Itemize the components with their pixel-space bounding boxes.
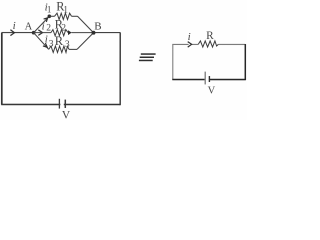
wire middle branch to node B bbox=[71, 32, 93, 34]
node B bbox=[92, 31, 96, 35]
resistor R3 zigzag bbox=[49, 46, 69, 52]
wire left-circuit outer loop bbox=[1, 33, 120, 106]
wire bottom right segment right-circuit bbox=[209, 79, 245, 81]
svg-text:i: i bbox=[188, 31, 191, 43]
svg-text:A: A bbox=[25, 21, 33, 32]
resistor R2 zigzag bbox=[51, 30, 68, 36]
svg-text:1: 1 bbox=[47, 5, 52, 15]
svg-text:i: i bbox=[42, 20, 45, 32]
wire R3 branch right stub bbox=[69, 48, 77, 50]
svg-text:i: i bbox=[13, 20, 16, 32]
wire left edge bbox=[1, 33, 3, 105]
battery V left circuit: left bar bbox=[58, 99, 60, 109]
wire diagonal R3 to node B bbox=[77, 33, 94, 50]
wire node B to top-right corner bbox=[94, 32, 121, 34]
equivalence symbol: bar 3 bbox=[139, 60, 153, 62]
wire diagonal R1 to node B bbox=[78, 16, 94, 32]
wire bottom right segment bbox=[64, 103, 121, 105]
wire top right-circuit bbox=[172, 43, 245, 45]
wire diagonal A to R3 branch bbox=[34, 33, 49, 50]
battery right circuit: long bar bbox=[204, 72, 206, 85]
wire middle branch A to zigzag bbox=[34, 32, 51, 34]
wire right edge right-circuit bbox=[244, 44, 246, 80]
wire bottom left segment bbox=[1, 103, 60, 105]
svg-text:V: V bbox=[62, 110, 71, 120]
wire left edge right-circuit bbox=[172, 44, 174, 79]
equivalence symbol: bar 2 bbox=[140, 57, 154, 59]
arrow current i1 on diagonal bbox=[44, 18, 48, 22]
battery V left circuit: right bar bbox=[64, 100, 66, 108]
wire top-left from corner to node A bbox=[2, 32, 34, 34]
arrowhead solid after R2 bbox=[68, 30, 72, 35]
arrow current i right circuit bbox=[188, 42, 192, 48]
node junction dot on R1 branch bbox=[48, 14, 52, 18]
wire diagonal A to R1 branch bbox=[34, 16, 50, 32]
equivalence symbol: bar 1 bbox=[141, 53, 156, 55]
node A bbox=[32, 31, 36, 35]
svg-text:B: B bbox=[94, 21, 101, 33]
resistor R zigzag right circuit bbox=[198, 41, 218, 47]
wire R1 branch right stub bbox=[72, 15, 78, 17]
battery right circuit: short bar bbox=[208, 76, 210, 82]
wire bottom left segment right-circuit bbox=[172, 79, 204, 81]
svg-text:i: i bbox=[45, 34, 48, 46]
wire R1 branch left stub bbox=[49, 15, 54, 17]
svg-text:V: V bbox=[208, 86, 216, 97]
resistor R1 zigzag bbox=[55, 13, 72, 19]
arrow current i3 on diagonal bbox=[43, 43, 47, 47]
wire right edge bbox=[119, 33, 121, 106]
wire right-circuit outer loop bbox=[172, 44, 246, 80]
arrow current i2 on middle branch bbox=[38, 30, 42, 36]
arrow current i on left wire bbox=[10, 30, 14, 36]
